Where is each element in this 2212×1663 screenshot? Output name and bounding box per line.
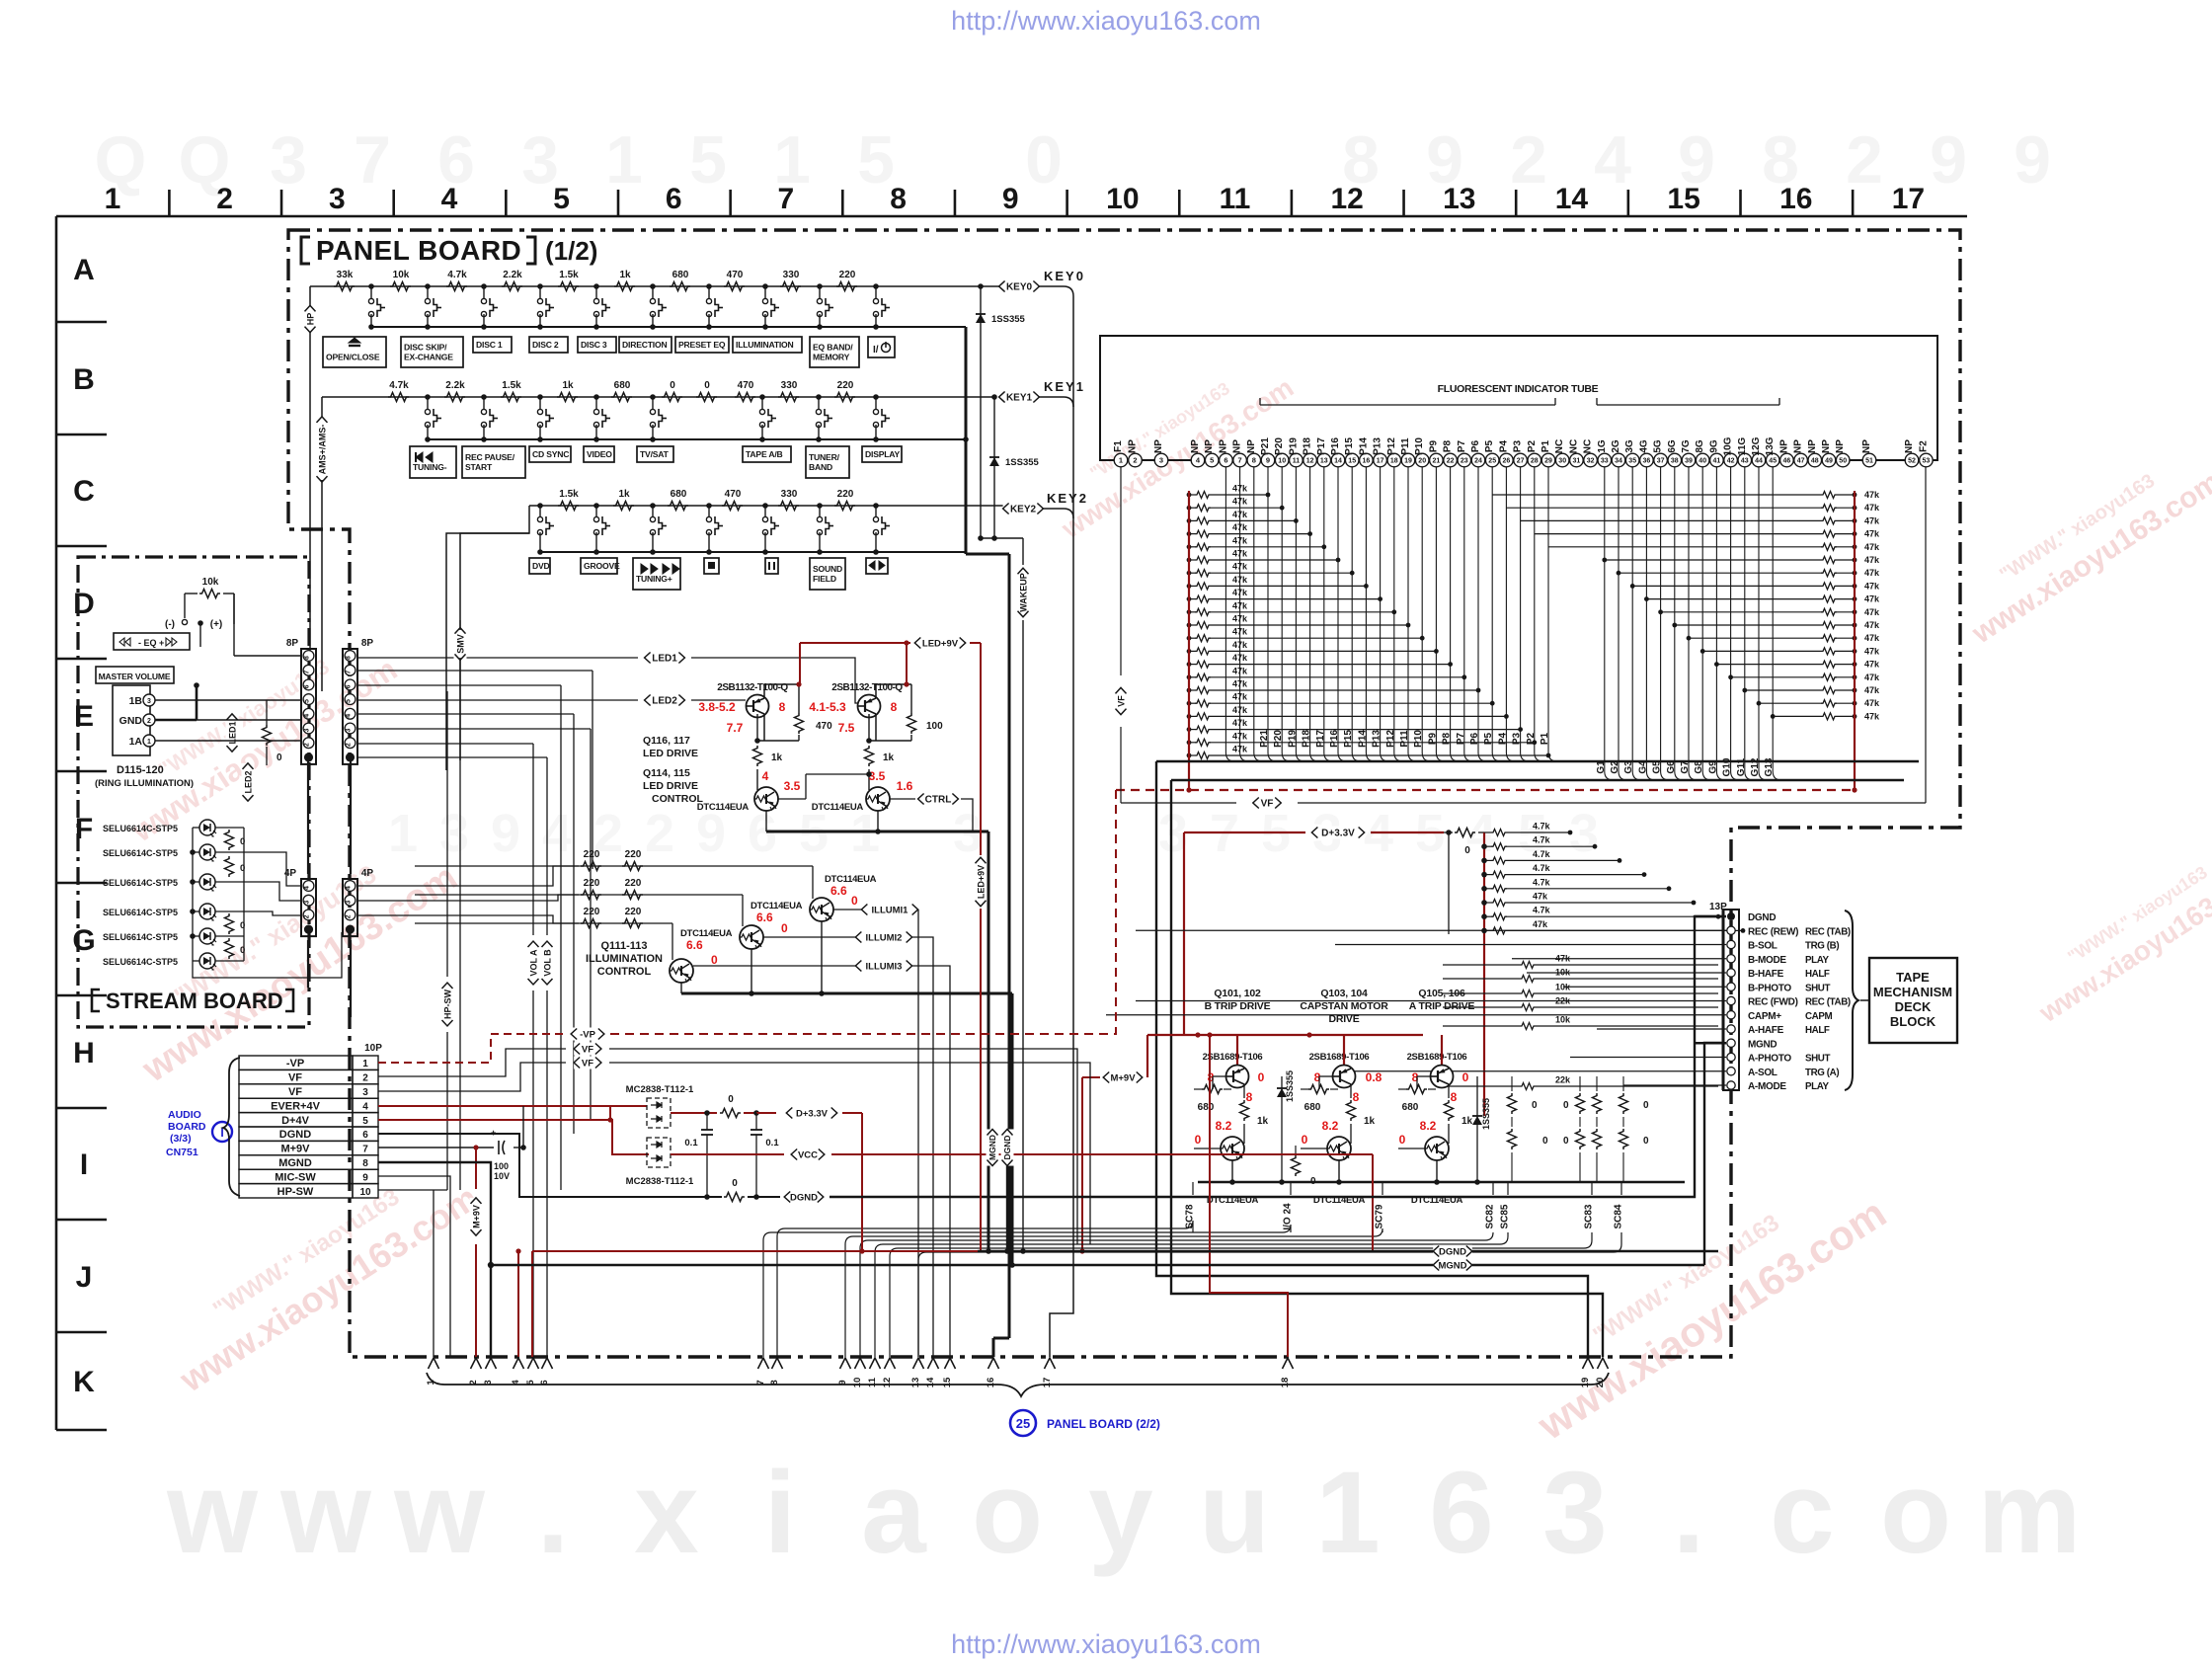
svg-text:DGND: DGND <box>1748 912 1776 923</box>
resistor 0 dgnd <box>704 1178 780 1202</box>
STREAM BOARD dashed boundary <box>78 557 309 1027</box>
svg-text:10k: 10k <box>202 577 219 588</box>
svg-text:PLAY: PLAY <box>1805 1081 1829 1092</box>
svg-text:220: 220 <box>584 849 600 860</box>
svg-text:B-MODE: B-MODE <box>1748 955 1786 966</box>
svg-text:47k: 47k <box>1864 594 1880 604</box>
wire emitter Q105, 106 <box>1434 1160 1440 1185</box>
transistor Q116 2SB1132-T100-Q <box>717 682 799 741</box>
svg-text:TUNING-: TUNING- <box>413 462 447 472</box>
wire VF bus left (dark red) <box>1188 491 1190 789</box>
button PAUSE <box>765 558 778 574</box>
svg-text:4.7k: 4.7k <box>1533 877 1551 887</box>
button TUNING+ <box>633 558 680 590</box>
svg-text:680: 680 <box>672 270 689 280</box>
svg-text:0: 0 <box>732 1178 738 1189</box>
button DIRECTION <box>619 337 671 353</box>
svg-text:LED2: LED2 <box>243 770 253 793</box>
node connector arrow 17 <box>1042 1358 1056 1387</box>
node LED+9V rotated <box>975 857 987 906</box>
wire LED1 to Q117 <box>691 658 858 703</box>
resistor base Q103, 104 <box>1301 1085 1338 1114</box>
svg-text:(1/2): (1/2) <box>545 236 597 266</box>
wire D+3.3V feed (dark red) <box>1184 832 1305 1035</box>
LED D118 SELU6614C-STP5 <box>103 904 244 920</box>
svg-text:17: 17 <box>1892 183 1925 215</box>
wire ILLUMI3 line <box>693 965 855 967</box>
svg-text:D+4V: D+4V <box>281 1115 309 1127</box>
svg-text:2: 2 <box>362 1073 368 1084</box>
svg-text:TUNER/: TUNER/ <box>809 452 840 462</box>
svg-text:SHUT: SHUT <box>1805 983 1830 993</box>
svg-text:33k: 33k <box>337 270 354 280</box>
wire key2 left drop <box>446 506 529 770</box>
connector CN 13P <box>1709 902 1851 1092</box>
svg-text:1k: 1k <box>618 489 630 500</box>
svg-text:16: 16 <box>1779 183 1812 215</box>
svg-text:K: K <box>73 1366 95 1398</box>
resistor 680 (KEY0 ladder) <box>670 270 690 291</box>
svg-text:REC (REW): REC (REW) <box>1748 926 1798 937</box>
switch S33 <box>650 503 667 555</box>
svg-text:330: 330 <box>781 489 798 500</box>
svg-text:1k: 1k <box>619 270 631 280</box>
wire MGND pin8 <box>378 1162 494 1357</box>
IC MC2838-T112-1 a <box>626 1084 694 1128</box>
svg-text:F2: F2 <box>1918 440 1929 452</box>
svg-text:8.2: 8.2 <box>1322 1119 1339 1133</box>
svg-text:47k: 47k <box>1864 698 1880 708</box>
svg-text:P14: P14 <box>1357 730 1368 748</box>
switch S23 <box>537 394 554 442</box>
border frame <box>56 183 1967 1430</box>
svg-text:PLAY: PLAY <box>1805 955 1829 966</box>
svg-text:DISC SKIP/: DISC SKIP/ <box>404 343 447 353</box>
svg-text:0: 0 <box>1399 1133 1406 1147</box>
svg-text:P4: P4 <box>1498 439 1509 452</box>
label MASTER VOLUME <box>96 667 174 683</box>
resistor 1.5k (KEY1 ladder) <box>501 380 521 402</box>
svg-text:M+9V: M+9V <box>280 1144 310 1155</box>
svg-text:DECK: DECK <box>1895 999 1932 1014</box>
wire net I/O 24 <box>763 1182 1294 1357</box>
svg-text:1: 1 <box>1119 456 1123 465</box>
svg-text:DRIVE: DRIVE <box>1328 1013 1359 1025</box>
svg-text:Q105, 106: Q105, 106 <box>1418 988 1465 999</box>
wire smv drop <box>459 620 461 1190</box>
svg-text:4.7k: 4.7k <box>389 380 409 391</box>
svg-text:1k: 1k <box>771 752 783 763</box>
svg-text:WAKEUP: WAKEUP <box>1018 573 1028 612</box>
svg-text:10: 10 <box>1278 458 1286 465</box>
svg-text:A: A <box>73 254 95 286</box>
svg-text:4.7k: 4.7k <box>1533 822 1551 831</box>
svg-text:D115-120: D115-120 <box>117 764 164 776</box>
svg-text:NC: NC <box>1583 439 1594 453</box>
svg-text:c: c <box>1770 1448 1835 1578</box>
wire net SC85 <box>875 1182 1511 1357</box>
switch S28 <box>873 394 890 442</box>
switch S37 <box>873 503 890 555</box>
svg-text:EVER+4V: EVER+4V <box>271 1100 320 1112</box>
node connector arrow 13 <box>910 1358 924 1387</box>
svg-text:0: 0 <box>240 945 245 956</box>
wire wakeup drop <box>1022 620 1024 1251</box>
svg-text:H: H <box>73 1037 95 1069</box>
svg-text:4.7k: 4.7k <box>1533 849 1551 859</box>
svg-text:http://www.xiaoyu163.com: http://www.xiaoyu163.com <box>951 1629 1261 1659</box>
label Q111-113 ILLUMINATION CONTROL <box>586 940 663 978</box>
wire d33 to bus <box>1371 830 1453 835</box>
node connector arrow 9 <box>837 1358 851 1386</box>
svg-text:19: 19 <box>1404 458 1412 465</box>
svg-text:25: 25 <box>1016 1416 1030 1431</box>
svg-text:47k: 47k <box>1533 919 1548 929</box>
resistor 1k (Q115) <box>865 746 895 790</box>
svg-text:9: 9 <box>2014 122 2051 198</box>
svg-text:LED1: LED1 <box>652 654 677 665</box>
svg-text:1SS355: 1SS355 <box>1481 1098 1491 1130</box>
svg-text:VF: VF <box>1116 695 1126 707</box>
button EQ seek bar <box>114 633 190 650</box>
brace 13P <box>1845 911 1858 1090</box>
wire led9v drop2 (dark red) <box>980 909 982 1251</box>
transistor DTC114EUA Q103, 104 <box>1301 1137 1366 1206</box>
svg-text:47k: 47k <box>1232 745 1248 754</box>
svg-text:16: 16 <box>1363 458 1371 465</box>
button DISC SKIP/EX-CHANGE <box>401 337 463 367</box>
LED D117 SELU6614C-STP5 <box>103 874 244 891</box>
svg-text:0: 0 <box>670 380 675 391</box>
svg-text:2: 2 <box>304 743 311 747</box>
svg-text:P10: P10 <box>1413 730 1424 748</box>
svg-text:47k: 47k <box>1232 679 1248 689</box>
node VCC tag <box>791 1148 825 1161</box>
svg-text:3: 3 <box>270 122 307 198</box>
wire MIC-SW pin9 <box>378 1176 450 1357</box>
svg-text:4: 4 <box>362 1101 368 1112</box>
svg-text:P9: P9 <box>1428 439 1439 452</box>
svg-text:13: 13 <box>910 1378 921 1388</box>
node connector arrow 1 <box>426 1358 439 1386</box>
wire illumi2 out <box>912 937 933 1357</box>
svg-text:SC82: SC82 <box>1485 1204 1496 1228</box>
node VF tag h2 <box>574 1057 601 1069</box>
svg-text:51: 51 <box>1865 458 1873 465</box>
svg-text:DISPLAY: DISPLAY <box>865 449 901 459</box>
svg-text:0.8: 0.8 <box>1366 1070 1382 1084</box>
svg-text:2: 2 <box>645 804 674 863</box>
resistor 220 (KEY0 ladder) <box>836 270 857 291</box>
svg-text:27: 27 <box>1517 458 1525 465</box>
node DGND tag pair <box>1433 1245 1472 1258</box>
svg-text:NP: NP <box>1190 439 1201 453</box>
svg-text:SELU6614C-STP5: SELU6614C-STP5 <box>103 848 178 858</box>
svg-text:1: 1 <box>1315 1448 1381 1578</box>
node LED2 tag <box>645 694 685 707</box>
svg-text:+: + <box>491 1128 496 1138</box>
button TUNER/BAND <box>806 446 849 478</box>
switch S15 <box>593 283 610 330</box>
svg-text:3.8-5.2: 3.8-5.2 <box>698 700 736 714</box>
resistor 100 <box>908 684 944 741</box>
svg-text:MGND: MGND <box>987 1135 997 1160</box>
svg-text:MASTER VOLUME: MASTER VOLUME <box>99 672 171 681</box>
svg-text:680: 680 <box>1304 1102 1321 1113</box>
wire illum gnd rail <box>681 921 1012 1265</box>
svg-text:SC79: SC79 <box>1375 1204 1385 1228</box>
svg-text:3.5: 3.5 <box>784 779 801 793</box>
node HP-SW <box>441 983 454 1026</box>
svg-text:100: 100 <box>926 721 943 732</box>
svg-text:P12: P12 <box>1385 730 1396 748</box>
svg-text:47k: 47k <box>1232 614 1248 624</box>
svg-text:12G: 12G <box>1751 436 1762 455</box>
node MGND rot <box>987 1129 999 1165</box>
svg-text:4.7k: 4.7k <box>1533 835 1551 845</box>
wire vf2 run <box>609 1063 1090 1244</box>
svg-text:12: 12 <box>1306 458 1314 465</box>
svg-text:SC78: SC78 <box>1185 1204 1196 1228</box>
svg-text:14: 14 <box>925 1377 936 1387</box>
svg-text:47: 47 <box>1797 458 1805 465</box>
node ILLUMI3 <box>855 960 911 973</box>
svg-text:CAPM+: CAPM+ <box>1748 1011 1781 1022</box>
svg-text:SELU6614C-STP5: SELU6614C-STP5 <box>103 957 178 967</box>
node connector arrow 18 <box>1280 1358 1294 1387</box>
svg-text:ILLUMINATION: ILLUMINATION <box>736 340 794 350</box>
svg-text:8.2: 8.2 <box>1216 1119 1232 1133</box>
svg-text:680: 680 <box>1198 1102 1215 1113</box>
switch S35 <box>762 503 779 555</box>
svg-text:SMV: SMV <box>455 634 465 654</box>
wire ILLUMI2 line <box>763 936 855 938</box>
svg-text:VF: VF <box>288 1086 302 1098</box>
svg-text:2G: 2G <box>1611 439 1621 453</box>
svg-text:470: 470 <box>738 380 754 391</box>
svg-text:C: C <box>73 475 95 508</box>
node VF tag h1 <box>574 1043 601 1056</box>
svg-text:50: 50 <box>1839 458 1847 465</box>
svg-text:P10: P10 <box>1414 437 1425 455</box>
svg-text:2: 2 <box>147 718 151 725</box>
button OPEN/CLOSE <box>323 337 386 367</box>
svg-text:6.6: 6.6 <box>686 938 703 952</box>
svg-text:15: 15 <box>1667 183 1699 215</box>
svg-text:47k: 47k <box>1232 627 1248 637</box>
svg-text:A-MODE: A-MODE <box>1748 1081 1786 1092</box>
svg-text:TUNING+: TUNING+ <box>636 574 672 584</box>
switch S14 <box>537 283 554 330</box>
resistor 330 (KEY0 ladder) <box>780 270 801 291</box>
svg-text:5G: 5G <box>1653 439 1664 453</box>
svg-text:A TRIP DRIVE: A TRIP DRIVE <box>1409 1000 1475 1012</box>
svg-text:8: 8 <box>1246 1090 1253 1104</box>
resistor 0 (led2) <box>263 700 283 765</box>
svg-text:2: 2 <box>1133 456 1137 465</box>
node connector arrow 6 <box>539 1358 553 1386</box>
resistor 1k (KEY0 ladder) <box>614 270 635 291</box>
svg-text:24: 24 <box>1474 458 1482 465</box>
wire Q117 collector node <box>866 714 911 744</box>
wire emitter Q101, 102 <box>1229 1160 1235 1185</box>
wire emitter Q103, 104 <box>1336 1160 1342 1185</box>
svg-text:MEMORY: MEMORY <box>813 352 850 361</box>
resistor 0 io <box>1292 1146 1317 1187</box>
svg-text:o: o <box>972 1448 1043 1578</box>
svg-text:2SB1689-T106: 2SB1689-T106 <box>1309 1052 1370 1063</box>
wire KEY1 rail <box>322 396 994 398</box>
wire vol a <box>532 744 534 1357</box>
svg-text:I/O 24: I/O 24 <box>1283 1203 1294 1230</box>
svg-text:4: 4 <box>1594 122 1631 198</box>
connector CN 4P (stream side) <box>284 868 316 936</box>
svg-text:3: 3 <box>1569 804 1599 863</box>
svg-text:9: 9 <box>491 804 520 863</box>
resistor 4.7k (KEY1 ladder) <box>388 380 409 402</box>
wire KEY1 bottom rail <box>428 438 966 440</box>
wire hp-sw drop <box>434 691 447 1357</box>
svg-text:0: 0 <box>1643 1136 1649 1147</box>
svg-text:DISC 3: DISC 3 <box>581 340 607 350</box>
svg-text:- EQ +: - EQ + <box>138 638 164 648</box>
svg-text:1.5k: 1.5k <box>502 380 521 391</box>
svg-text:TRG (A): TRG (A) <box>1805 1068 1839 1078</box>
svg-text:w: w <box>393 1448 486 1578</box>
svg-text:DVD: DVD <box>532 561 550 571</box>
button REC PAUSE/START <box>462 446 525 478</box>
svg-text:DTC114EUA: DTC114EUA <box>697 802 750 813</box>
node connector arrow 5 <box>525 1358 539 1386</box>
svg-text:AUDIO: AUDIO <box>168 1109 201 1121</box>
node connector arrow 15 <box>942 1358 956 1387</box>
svg-text:5: 5 <box>553 183 570 215</box>
svg-text:26: 26 <box>1503 458 1511 465</box>
wire bus P lines <box>1259 467 1557 761</box>
svg-text:220: 220 <box>584 907 600 917</box>
svg-text:A-SOL: A-SOL <box>1748 1068 1777 1078</box>
svg-text:49: 49 <box>1825 458 1833 465</box>
svg-text:7G: 7G <box>1681 439 1692 453</box>
svg-text:DGND: DGND <box>790 1192 818 1203</box>
svg-text:1SS355: 1SS355 <box>1005 457 1040 468</box>
svg-text:2SB1689-T106: 2SB1689-T106 <box>1407 1052 1467 1063</box>
svg-text:2.2k: 2.2k <box>445 380 465 391</box>
svg-text:47k: 47k <box>1232 640 1248 650</box>
node connector arrow 14 <box>925 1358 939 1387</box>
svg-text:DGND: DGND <box>1439 1246 1466 1257</box>
svg-text:VIDEO: VIDEO <box>587 449 612 459</box>
wire F1 drop <box>1120 467 1122 675</box>
transistor DTC114EUA Q101, 102 <box>1194 1137 1259 1206</box>
resistor 470 (KEY0 ladder) <box>724 270 745 291</box>
svg-text:TAPE A/B: TAPE A/B <box>746 449 783 459</box>
node connector arrow 4 <box>511 1358 524 1386</box>
svg-text:0: 0 <box>240 836 245 847</box>
wire LED1 net <box>357 657 638 659</box>
svg-text:13: 13 <box>1320 458 1328 465</box>
svg-text:8P: 8P <box>286 638 299 649</box>
svg-text:47k: 47k <box>1232 497 1248 507</box>
svg-text:SELU6614C-STP5: SELU6614C-STP5 <box>103 824 178 833</box>
wire bus G lines <box>1596 467 1781 780</box>
resistor 4.7k (KEY0 ladder) <box>446 270 467 291</box>
svg-text:13G: 13G <box>1765 436 1776 455</box>
node LED1 tag <box>645 652 685 665</box>
bracket G group <box>1597 398 1779 405</box>
svg-text:ILLUMI2: ILLUMI2 <box>866 932 903 943</box>
svg-text:47k: 47k <box>1232 731 1248 741</box>
wire KEY2 rail <box>529 505 1003 507</box>
svg-text:DGND: DGND <box>1002 1135 1012 1159</box>
svg-text:VF: VF <box>1261 799 1274 810</box>
label AUDIO BOARD (3/3) CN751 <box>166 1109 232 1158</box>
resistor 1.5k (KEY0 ladder) <box>558 270 579 291</box>
svg-text:37: 37 <box>1657 458 1665 465</box>
svg-text:10: 10 <box>359 1187 371 1198</box>
svg-text:P16: P16 <box>1330 437 1341 455</box>
svg-text:4: 4 <box>346 886 353 890</box>
transistor Q114 DTC114EUA <box>697 787 778 813</box>
svg-text:(-): (-) <box>165 619 175 630</box>
node M+9V rotated <box>470 1148 483 1357</box>
svg-text:0: 0 <box>851 894 858 908</box>
resistor 0 (KEY1 ladder) <box>662 380 682 402</box>
svg-text:BLOCK: BLOCK <box>1890 1014 1936 1029</box>
wire vol resistor leads <box>185 594 234 624</box>
svg-text:36: 36 <box>1643 458 1651 465</box>
svg-text:47k: 47k <box>1232 653 1248 663</box>
node -VP tag <box>571 1028 604 1041</box>
resistor 470 (KEY1 ladder) <box>735 380 755 402</box>
svg-text:12: 12 <box>1330 183 1363 215</box>
wire 4P pin1 drops <box>308 940 351 1017</box>
svg-text:470: 470 <box>816 721 832 732</box>
svg-text:3: 3 <box>304 901 311 905</box>
svg-text:REC PAUSE/: REC PAUSE/ <box>465 452 515 462</box>
svg-text:1.5k: 1.5k <box>559 489 579 500</box>
svg-text:0: 0 <box>1542 1136 1548 1147</box>
svg-text:28: 28 <box>1531 458 1539 465</box>
svg-text:8: 8 <box>1451 1090 1458 1104</box>
resistor 0 (ring led 3) <box>225 913 246 934</box>
svg-text:1A: 1A <box>129 736 143 748</box>
transistor Q112 DTC114EUA <box>740 901 803 949</box>
svg-text:VF: VF <box>288 1072 302 1084</box>
svg-text:4: 4 <box>304 886 311 890</box>
wire KEY0 bottom rail <box>371 326 966 328</box>
resistor 220 r2a <box>581 878 601 900</box>
svg-text:NP: NP <box>1153 439 1164 453</box>
svg-text:47k: 47k <box>1232 718 1248 728</box>
svg-text:30: 30 <box>1558 458 1566 465</box>
svg-text:47k: 47k <box>1864 555 1880 565</box>
resistor 0 (ring led 2) <box>225 856 246 877</box>
svg-text:17: 17 <box>1042 1378 1053 1388</box>
svg-text:0: 0 <box>1025 122 1063 198</box>
wire 3.3 second vertical <box>1448 832 1450 934</box>
svg-text:10P: 10P <box>364 1043 382 1054</box>
svg-text:P8: P8 <box>1443 439 1454 452</box>
wire cross couple <box>778 771 872 799</box>
svg-text:4.7k: 4.7k <box>1533 863 1551 873</box>
svg-text:5: 5 <box>1210 456 1214 465</box>
resistor 0 (d33) <box>1455 829 1475 857</box>
connector CN 4P (panel side) <box>343 868 373 936</box>
resistor 220 r1a <box>581 849 601 871</box>
diode D2 1SS355 <box>989 397 1040 538</box>
button STOP <box>704 558 719 574</box>
